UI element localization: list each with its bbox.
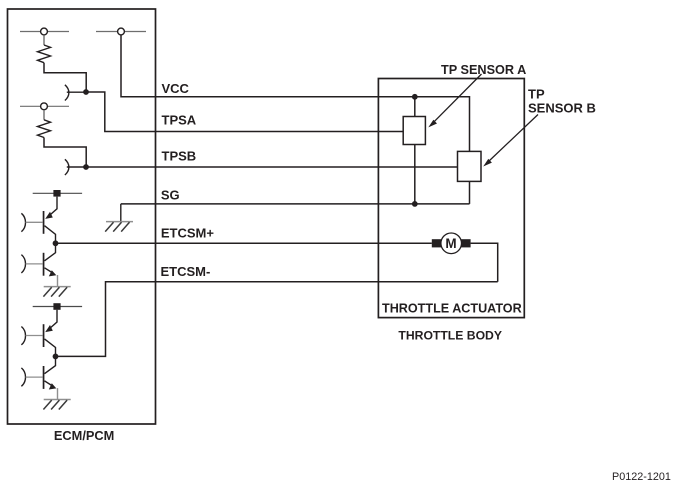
connector pin Q4 base — [21, 368, 42, 386]
ground (Q4 emitter) — [43, 400, 70, 410]
svg-text:ETCSM-: ETCSM- — [161, 264, 211, 279]
leader arrow TP sensor A — [428, 74, 481, 127]
TP sensor B body — [458, 151, 482, 181]
transistor Q1 (PNP high-side, ETCSM+) — [43, 197, 57, 244]
svg-text:TPSA: TPSA — [162, 112, 197, 127]
wire SG to ground — [120, 204, 122, 222]
wire ETCSM- — [56, 282, 498, 357]
connector pin Q3 base — [21, 327, 42, 345]
node E (VCC junction at sensor A) — [412, 94, 418, 100]
terminal square S1 — [53, 190, 60, 197]
connector pin TPSB — [65, 159, 86, 175]
wire TPSA — [86, 92, 403, 132]
resistor R2 — [38, 110, 51, 138]
svg-text:SENSOR B: SENSOR B — [528, 101, 596, 116]
svg-text:VCC: VCC — [162, 81, 190, 96]
leader arrow TP sensor B — [483, 115, 538, 167]
svg-text:P0122-1201: P0122-1201 — [612, 471, 671, 483]
svg-text:TPSB: TPSB — [162, 149, 197, 164]
node A (TPSA junction) — [83, 89, 89, 95]
terminal square S2 — [53, 303, 60, 310]
connector pin TPSA — [65, 85, 86, 101]
terminal T3 (battery feed 2) — [20, 103, 69, 110]
terminal T2 (VCC feed) — [96, 28, 146, 35]
transistor Q2 (NPN low-side, ETCSM+) — [43, 243, 58, 286]
power rail 2 — [33, 306, 82, 308]
wire sensor A to SG — [414, 145, 416, 204]
throttle body box — [378, 79, 524, 318]
node B (TPSB junction) — [83, 164, 89, 170]
wire sensor B to SG — [469, 181, 471, 204]
resistor R1 — [38, 35, 51, 63]
transistor Q3 (PNP high-side, ETCSM-) — [43, 310, 57, 357]
ECM/PCM box — [8, 9, 156, 424]
wire SG — [121, 203, 470, 205]
node F (SG junction) — [412, 201, 418, 207]
node D (ETCSM- junction) — [53, 354, 59, 360]
wire motor to ETCSM- — [471, 243, 498, 281]
wire VCC to sensor A — [414, 97, 416, 117]
wire R2 to node B — [44, 138, 86, 168]
ground (Q2 emitter) — [43, 287, 70, 297]
svg-text:M: M — [445, 236, 456, 251]
motor M1 — [432, 233, 471, 254]
svg-text:THROTTLE ACTUATOR: THROTTLE ACTUATOR — [382, 301, 522, 315]
power rail 1 — [33, 192, 82, 194]
wire TPSB — [86, 166, 458, 168]
connector pin Q1 base — [21, 213, 42, 231]
svg-text:TP: TP — [528, 86, 545, 101]
svg-text:THROTTLE BODY: THROTTLE BODY — [398, 328, 502, 342]
connector pin Q2 base — [21, 255, 42, 273]
terminal T1 (battery feed) — [20, 28, 69, 35]
svg-text:ECM/PCM: ECM/PCM — [54, 428, 114, 443]
ground (SG, inside ECM) — [105, 222, 133, 232]
transistor Q4 (NPN low-side, ETCSM-) — [43, 356, 58, 399]
wire ETCSM+ — [56, 242, 432, 244]
wire VCC — [121, 35, 470, 152]
node C (ETCSM+ junction) — [53, 240, 59, 246]
svg-text:TP SENSOR A: TP SENSOR A — [441, 63, 526, 77]
TP sensor A body — [403, 117, 425, 145]
svg-text:ETCSM+: ETCSM+ — [161, 225, 215, 240]
wire R1 to node A — [44, 63, 86, 92]
svg-text:SG: SG — [161, 188, 180, 203]
